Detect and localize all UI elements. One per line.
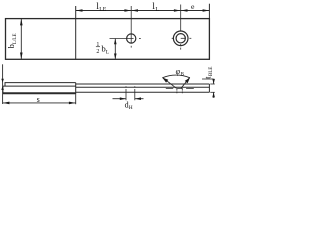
hole 1 <box>127 34 136 43</box>
dimension chain line y=10.5 <box>76 10 210 12</box>
d_H hidden hole edge lines <box>125 86 127 100</box>
b_L width dimension line <box>20 19 22 60</box>
member right end edge <box>75 83 77 95</box>
svg-text:BLE: BLE <box>209 67 214 76</box>
label l_LE <box>96 1 106 13</box>
label t_BL rotated <box>203 67 214 79</box>
arrowheads of dimension chain <box>76 9 209 12</box>
hole 2 inner circle <box>176 34 185 43</box>
svg-text:L: L <box>106 49 109 55</box>
svg-text:s: s <box>37 95 40 104</box>
bolt shank hidden lines <box>177 89 182 94</box>
label e <box>191 2 195 11</box>
svg-text:LE: LE <box>99 7 107 13</box>
joint line at strap end <box>75 6 77 59</box>
d_H dimension arrows <box>113 98 126 100</box>
label b_L,LE rotated <box>7 33 18 48</box>
right top sheet <box>76 83 210 85</box>
side view: left member <box>3 86 76 93</box>
angle dimension arc <box>162 75 190 78</box>
t_BL label leader <box>202 78 214 80</box>
svg-text:L: L <box>155 7 159 13</box>
hole 2 outer circle (washer) <box>173 31 188 46</box>
hole 2 horizontal centerline <box>172 37 174 39</box>
side view: strap top left <box>5 83 76 87</box>
countersink slant edges extended <box>163 78 177 89</box>
hole 1 vertical centerline <box>130 6 132 43</box>
svg-text:H: H <box>129 105 133 111</box>
hole 2 vertical centerline <box>180 5 182 31</box>
t_BL extension lines at sheet end <box>210 83 215 85</box>
left thickness dimension line <box>2 64 4 104</box>
svg-text:L/LE: L/LE <box>13 33 18 44</box>
sheet right end edge <box>208 84 210 92</box>
plate outline (top view) <box>6 19 210 60</box>
countersink hidden bottom line dashed <box>166 88 194 90</box>
plate right edge extension <box>208 4 210 19</box>
label phi_B <box>176 67 185 78</box>
label 1/2 b_L <box>96 42 109 56</box>
member bottom thick line <box>3 92 76 94</box>
svg-text:e: e <box>191 2 195 11</box>
hole 1 horizontal centerline <box>110 38 134 40</box>
svg-text:B: B <box>181 73 185 78</box>
label s <box>37 95 40 104</box>
t_BL dimension line with arrows <box>213 79 215 84</box>
right bottom sheet bottom edge <box>76 91 210 93</box>
half b_L dimension line <box>114 39 116 60</box>
svg-text:2: 2 <box>96 49 99 55</box>
s dimension <box>75 94 77 104</box>
label d_H <box>125 101 133 111</box>
label l_L <box>152 1 159 13</box>
